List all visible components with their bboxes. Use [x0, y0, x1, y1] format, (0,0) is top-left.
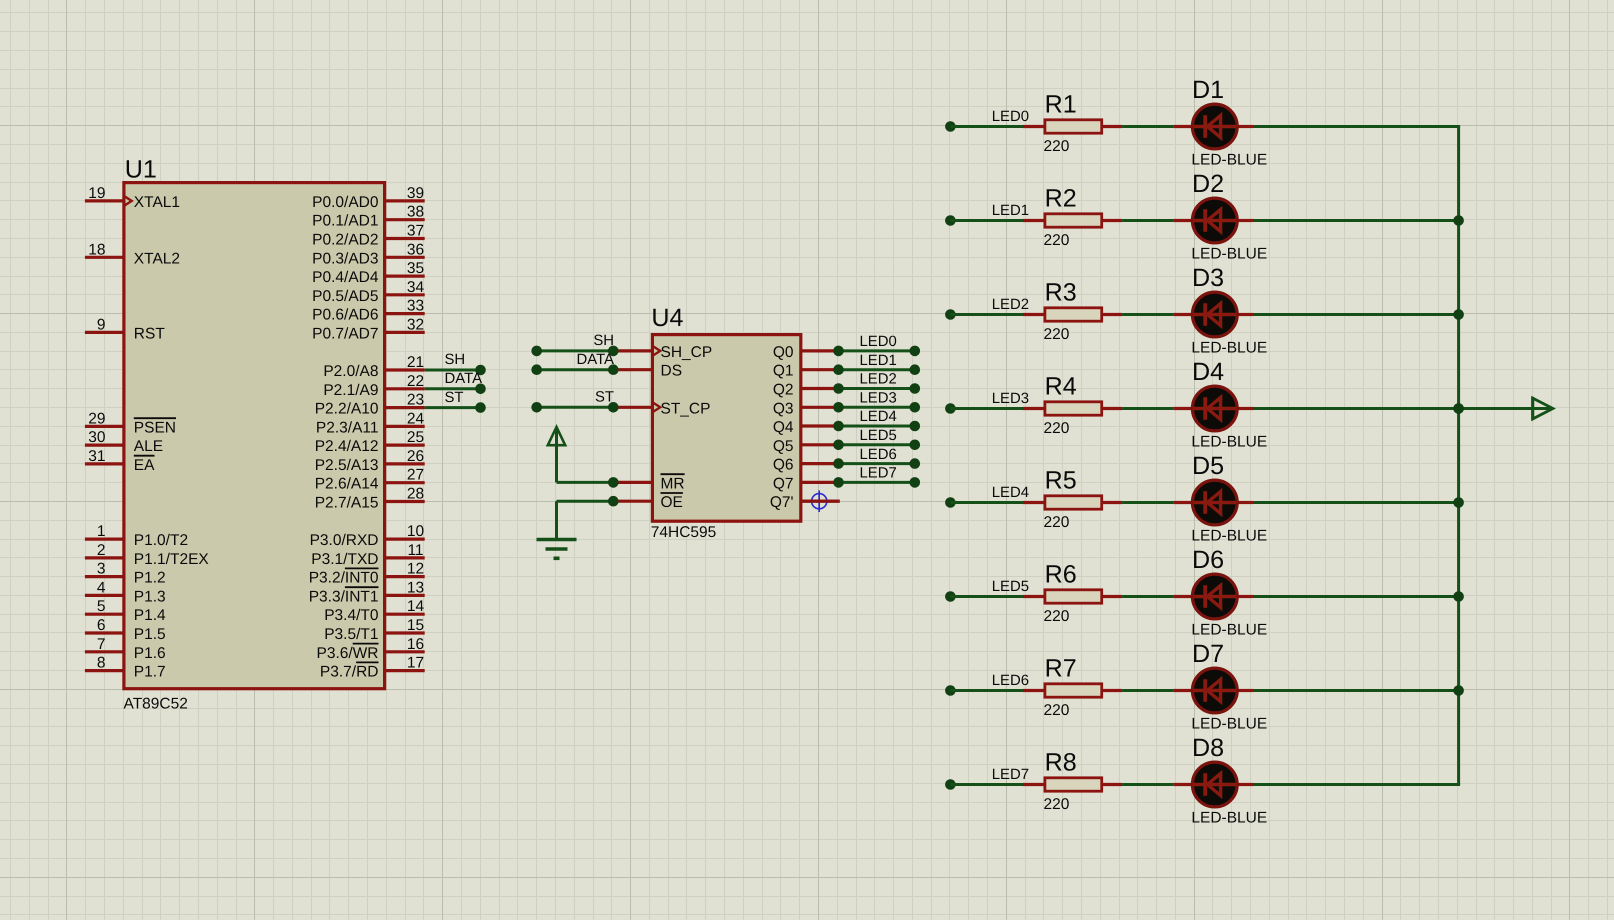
pin Q2 of U4 [773, 382, 839, 399]
svg-text:LED3: LED3 [992, 391, 1029, 407]
svg-text:P2.0/A8: P2.0/A8 [323, 363, 378, 380]
IC U1 AT89C52 body [124, 183, 385, 689]
svg-text:XTAL1: XTAL1 [134, 194, 180, 211]
pin 34 (P0.5-AD5) of U1 [312, 279, 425, 305]
svg-text:Q4: Q4 [773, 419, 794, 436]
svg-text:LED-BLUE: LED-BLUE [1191, 339, 1267, 356]
svg-text:P0.6/AD6: P0.6/AD6 [312, 307, 378, 324]
svg-text:LED4: LED4 [860, 409, 897, 425]
svg-text:10: 10 [407, 523, 425, 540]
svg-text:LED5: LED5 [992, 579, 1029, 595]
svg-text:15: 15 [407, 617, 424, 634]
svg-text:9: 9 [97, 316, 106, 333]
svg-text:P1.2: P1.2 [134, 570, 166, 587]
pin 4 (P1.3) of U1 [85, 579, 166, 605]
svg-text:ST: ST [445, 390, 464, 406]
svg-text:D5: D5 [1192, 452, 1224, 480]
LED D4 LED-BLUE [1173, 358, 1267, 451]
wire R2 to D2 [1122, 219, 1173, 222]
wire net LED2 from Q2 [833, 372, 920, 394]
svg-text:Q0: Q0 [773, 344, 794, 361]
svg-text:220: 220 [1044, 420, 1070, 437]
svg-text:Q6: Q6 [773, 457, 794, 474]
junction bus row 4 [1453, 403, 1464, 414]
node LED5 wire start [945, 591, 956, 602]
pin 26 (P2.5-A13) of U1 [315, 448, 425, 474]
pin 1 (P1.0-T2) of U1 [85, 523, 188, 549]
pin 14 (P3.4-T0) of U1 [324, 598, 424, 624]
wire LED6 to R7 [950, 673, 1029, 690]
wire R5 to D5 [1122, 501, 1173, 504]
svg-text:LED3: LED3 [860, 391, 897, 407]
pin 29 (PSEN) of U1 [85, 410, 176, 436]
pin MR of U4 [613, 474, 684, 492]
svg-text:LED-BLUE: LED-BLUE [1191, 245, 1267, 262]
svg-text:3: 3 [97, 561, 106, 578]
wire net SH into U4 SH_CP [531, 333, 618, 356]
wire net LED7 from Q7 [833, 466, 920, 488]
svg-text:LED0: LED0 [992, 109, 1029, 125]
pin 24 (P2.3-A11) of U1 [316, 410, 425, 436]
junction bus row 3 [1453, 309, 1464, 320]
svg-text:220: 220 [1044, 232, 1070, 249]
svg-text:37: 37 [407, 223, 424, 240]
pin ST_CP of U4 [613, 400, 710, 417]
pin 38 (P0.1-AD1) of U1 [312, 204, 425, 230]
svg-text:R1: R1 [1045, 90, 1077, 118]
svg-text:LED1: LED1 [992, 203, 1029, 219]
svg-text:16: 16 [407, 636, 424, 653]
node LED3 wire start [945, 403, 956, 414]
svg-text:D3: D3 [1192, 264, 1224, 292]
svg-text:Q7: Q7 [773, 475, 794, 492]
pin 12 (P3.2-INT0) of U1 [309, 561, 425, 587]
wire D7 to bus [1254, 689, 1459, 692]
svg-text:8: 8 [97, 655, 106, 672]
LED D3 LED-BLUE [1173, 264, 1267, 357]
wire net LED0 from Q0 [833, 334, 920, 356]
wire net ST into U4 ST_CP [531, 390, 618, 413]
LED D7 LED-BLUE [1173, 640, 1267, 733]
svg-text:ST_CP: ST_CP [661, 400, 711, 417]
svg-text:LED0: LED0 [860, 334, 897, 350]
node LED6 wire start [945, 685, 956, 696]
svg-text:P2.1/A9: P2.1/A9 [323, 382, 378, 399]
svg-text:31: 31 [88, 448, 105, 465]
svg-text:74HC595: 74HC595 [651, 524, 717, 541]
svg-text:P3.3/INT1: P3.3/INT1 [309, 588, 379, 605]
svg-text:LED4: LED4 [992, 485, 1029, 501]
svg-text:R6: R6 [1045, 560, 1077, 588]
svg-text:R2: R2 [1045, 184, 1077, 212]
svg-text:7: 7 [97, 636, 106, 653]
pin 32 (P0.7-AD7) of U1 [312, 316, 425, 342]
wire net LED4 from Q4 [833, 409, 920, 431]
svg-text:6: 6 [97, 617, 106, 634]
svg-text:ST: ST [595, 390, 614, 406]
pin 6 (P1.5) of U1 [85, 617, 166, 643]
node LED1 wire start [945, 215, 956, 226]
svg-text:R8: R8 [1045, 748, 1077, 776]
svg-text:P1.4: P1.4 [134, 607, 166, 624]
svg-text:P2.2/A10: P2.2/A10 [315, 401, 379, 418]
LED D8 LED-BLUE [1173, 734, 1267, 827]
wire net LED3 from Q3 [833, 391, 920, 413]
svg-text:17: 17 [407, 655, 424, 672]
svg-text:PSEN: PSEN [134, 419, 176, 436]
svg-text:P0.5/AD5: P0.5/AD5 [312, 288, 378, 305]
junction bus row 4 terminal [1453, 403, 1464, 414]
pin 39 (P0.0-AD0) of U1 [312, 185, 425, 211]
wire D8 to bus [1254, 783, 1461, 786]
wire D4 to output terminal [1254, 407, 1533, 410]
svg-text:P3.1/TXD: P3.1/TXD [311, 551, 378, 568]
resistor R1 220 [1023, 90, 1122, 155]
svg-text:21: 21 [407, 354, 424, 371]
svg-text:26: 26 [407, 448, 424, 465]
pin 9 (RST) of U1 [85, 316, 165, 342]
svg-text:P2.5/A13: P2.5/A13 [315, 457, 379, 474]
svg-text:DS: DS [661, 363, 683, 380]
pin 2 (P1.1-T2EX) of U1 [85, 542, 210, 568]
wire net SH from U1 P2.0 [425, 352, 486, 375]
resistor R7 220 [1023, 654, 1122, 719]
wire LED2 to R3 [950, 297, 1029, 314]
svg-text:32: 32 [407, 316, 424, 333]
svg-text:24: 24 [407, 410, 425, 427]
pin SH_CP of U4 [613, 344, 712, 361]
svg-text:R5: R5 [1045, 466, 1077, 494]
svg-text:39: 39 [407, 185, 424, 202]
svg-text:35: 35 [407, 260, 424, 277]
svg-text:SH: SH [593, 333, 614, 349]
wire R8 to D8 [1122, 783, 1173, 786]
resistor R8 220 [1023, 748, 1122, 813]
svg-text:LED-BLUE: LED-BLUE [1191, 809, 1267, 826]
pin 21 (P2.0-A8) of U1 [323, 354, 424, 380]
pin 33 (P0.6-AD6) of U1 [312, 298, 425, 324]
svg-text:LED6: LED6 [860, 447, 897, 463]
wire net LED6 from Q6 [833, 447, 920, 469]
pin Q5 of U4 [773, 438, 839, 455]
svg-text:ALE: ALE [134, 438, 163, 455]
svg-text:13: 13 [407, 579, 424, 596]
node LED4 wire start [945, 497, 956, 508]
svg-text:AT89C52: AT89C52 [124, 695, 188, 712]
svg-text:1: 1 [97, 523, 106, 540]
svg-text:LED7: LED7 [860, 466, 897, 482]
pin 11 (P3.1-TXD) of U1 [311, 542, 424, 568]
svg-text:P1.1/T2EX: P1.1/T2EX [134, 551, 210, 568]
LED D5 LED-BLUE [1173, 452, 1267, 545]
pin 10 (P3.0-RXD) of U1 [310, 523, 425, 549]
svg-text:22: 22 [407, 373, 424, 390]
svg-text:P3.5/T1: P3.5/T1 [324, 626, 378, 643]
svg-text:220: 220 [1044, 608, 1070, 625]
svg-text:P0.0/AD0: P0.0/AD0 [312, 194, 379, 211]
wire D6 to bus [1254, 595, 1459, 598]
svg-text:P3.0/RXD: P3.0/RXD [310, 532, 379, 549]
pin 37 (P0.2-AD2) of U1 [312, 223, 425, 249]
junction bus row 6 [1453, 591, 1464, 602]
svg-text:P2.7/A15: P2.7/A15 [315, 495, 379, 512]
svg-text:27: 27 [407, 467, 424, 484]
pin OE of U4 [613, 493, 683, 511]
svg-text:220: 220 [1044, 326, 1070, 343]
svg-text:P3.7/RD: P3.7/RD [320, 664, 379, 681]
svg-text:11: 11 [407, 542, 423, 559]
label AT89C52 value [124, 695, 188, 712]
pin 30 (ALE) of U1 [85, 429, 163, 455]
junction bus row 7 [1453, 685, 1464, 696]
svg-text:5: 5 [97, 598, 106, 615]
pin 17 (P3.7-RD) of U1 [320, 655, 425, 681]
svg-text:30: 30 [88, 429, 106, 446]
wire D1 to bus [1254, 125, 1461, 128]
pin Q7 of U4 [773, 475, 839, 492]
pin Q7' of U4 [770, 494, 840, 511]
svg-text:P0.2/AD2: P0.2/AD2 [312, 232, 378, 249]
svg-text:D6: D6 [1192, 546, 1224, 574]
wire LED5 to R6 [950, 579, 1029, 596]
wire net DATA from U1 P2.1 [425, 371, 486, 394]
pin 31 (EA) of U1 [85, 448, 155, 474]
svg-text:DATA: DATA [445, 371, 483, 387]
pin 16 (P3.6-WR) of U1 [316, 636, 424, 662]
svg-text:P3.6/WR: P3.6/WR [316, 645, 378, 662]
svg-text:Q5: Q5 [773, 438, 794, 455]
svg-text:SH_CP: SH_CP [661, 344, 713, 361]
svg-text:38: 38 [407, 204, 424, 221]
pin 27 (P2.6-A14) of U1 [315, 467, 425, 493]
svg-text:23: 23 [407, 392, 424, 409]
svg-text:RST: RST [134, 325, 166, 342]
svg-text:P0.4/AD4: P0.4/AD4 [312, 269, 379, 286]
wire D5 to bus [1254, 501, 1459, 504]
pin 18 (XTAL2) of U1 [85, 241, 180, 267]
pin Q0 of U4 [773, 344, 839, 361]
svg-text:D2: D2 [1192, 170, 1224, 198]
svg-text:P1.0/T2: P1.0/T2 [134, 532, 188, 549]
wire LED0 to R1 [950, 109, 1029, 126]
svg-text:29: 29 [88, 410, 105, 427]
svg-text:P0.1/AD1: P0.1/AD1 [312, 213, 378, 230]
pin 23 (P2.2-A10) of U1 [315, 392, 425, 418]
pin 15 (P3.5-T1) of U1 [324, 617, 424, 643]
svg-text:LED-BLUE: LED-BLUE [1191, 527, 1267, 544]
svg-text:R3: R3 [1045, 278, 1077, 306]
pin Q3 of U4 [773, 400, 839, 417]
resistor R4 220 [1023, 372, 1122, 437]
resistor R6 220 [1023, 560, 1122, 625]
pin DS of U4 [613, 363, 682, 380]
pin 7 (P1.6) of U1 [85, 636, 166, 662]
svg-text:Q7': Q7' [770, 494, 794, 511]
svg-text:DATA: DATA [576, 352, 614, 368]
svg-text:MR: MR [661, 475, 685, 492]
resistor R3 220 [1023, 278, 1122, 343]
svg-text:SH: SH [445, 352, 466, 368]
pin Q1 of U4 [773, 363, 839, 380]
svg-text:P2.3/A11: P2.3/A11 [316, 419, 379, 436]
output arrow terminal [1533, 397, 1553, 420]
svg-text:OE: OE [661, 494, 683, 511]
svg-text:P0.7/AD7: P0.7/AD7 [312, 325, 378, 342]
svg-text:P1.3: P1.3 [134, 588, 166, 605]
svg-text:12: 12 [407, 561, 424, 578]
svg-text:XTAL2: XTAL2 [134, 250, 180, 267]
svg-text:Q1: Q1 [773, 363, 794, 380]
svg-text:34: 34 [407, 279, 425, 296]
wire D3 to bus [1254, 313, 1459, 316]
label U1 reference [125, 156, 157, 184]
svg-text:LED-BLUE: LED-BLUE [1191, 433, 1267, 450]
svg-text:220: 220 [1044, 138, 1070, 155]
svg-text:220: 220 [1044, 702, 1070, 719]
svg-text:P2.4/A12: P2.4/A12 [315, 438, 379, 455]
svg-text:2: 2 [97, 542, 106, 559]
node LED7 wire start [945, 779, 956, 790]
wire vertical bus [1457, 127, 1460, 785]
label U4 reference [651, 304, 683, 332]
svg-text:P3.4/T0: P3.4/T0 [324, 607, 379, 624]
pin Q6 of U4 [773, 457, 839, 474]
wire R7 to D7 [1122, 689, 1173, 692]
svg-text:33: 33 [407, 298, 424, 315]
IC U4 74HC595 body [652, 335, 800, 522]
svg-text:LED2: LED2 [992, 297, 1029, 313]
pin Q4 of U4 [773, 419, 839, 436]
svg-text:220: 220 [1044, 796, 1070, 813]
pin 3 (P1.2) of U1 [85, 561, 166, 587]
pin 13 (P3.3-INT1) of U1 [309, 579, 425, 605]
svg-text:R4: R4 [1045, 372, 1077, 400]
label 74HC595 value [651, 524, 717, 541]
LED D1 LED-BLUE [1173, 76, 1267, 169]
wire R1 to D1 [1122, 125, 1173, 128]
wire LED3 to R4 [950, 391, 1029, 408]
resistor R5 220 [1023, 466, 1122, 531]
pin 36 (P0.3-AD3) of U1 [312, 241, 425, 267]
wire R6 to D6 [1122, 595, 1173, 598]
svg-text:19: 19 [88, 185, 105, 202]
node LED0 wire start [945, 121, 956, 132]
svg-text:P1.5: P1.5 [134, 626, 166, 643]
wire R4 to D4 [1122, 407, 1173, 410]
pin 8 (P1.7) of U1 [85, 655, 166, 681]
power terminal VCC to MR of U4 [548, 427, 619, 488]
ground terminal to OE of U4 [537, 496, 619, 558]
wire LED4 to R5 [950, 485, 1029, 502]
resistor R2 220 [1023, 184, 1122, 249]
svg-text:LED7: LED7 [992, 767, 1029, 783]
wire LED1 to R2 [950, 203, 1029, 220]
svg-text:P3.2/INT0: P3.2/INT0 [309, 570, 379, 587]
wire net LED5 from Q5 [833, 428, 920, 450]
svg-text:EA: EA [134, 457, 155, 474]
pin 19 (XTAL1) of U1 [85, 185, 180, 211]
svg-text:36: 36 [407, 241, 424, 258]
svg-text:D7: D7 [1192, 640, 1224, 668]
svg-text:LED1: LED1 [860, 353, 897, 369]
svg-text:18: 18 [88, 241, 105, 258]
LED D6 LED-BLUE [1173, 546, 1267, 639]
pin 25 (P2.4-A12) of U1 [315, 429, 425, 455]
pin 28 (P2.7-A15) of U1 [315, 486, 425, 512]
LED D2 LED-BLUE [1173, 170, 1267, 263]
svg-text:LED5: LED5 [860, 428, 897, 444]
node LED2 wire start [945, 309, 956, 320]
wire LED7 to R8 [950, 767, 1029, 784]
svg-text:LED-BLUE: LED-BLUE [1191, 715, 1267, 732]
svg-text:Q2: Q2 [773, 382, 794, 399]
svg-text:LED2: LED2 [860, 372, 897, 388]
svg-text:D4: D4 [1192, 358, 1224, 386]
svg-text:14: 14 [407, 598, 425, 615]
svg-text:P1.7: P1.7 [134, 664, 166, 681]
svg-text:U1: U1 [125, 156, 157, 184]
svg-text:P2.6/A14: P2.6/A14 [315, 476, 379, 493]
junction bus row 2 [1453, 215, 1464, 226]
svg-text:LED-BLUE: LED-BLUE [1191, 621, 1267, 638]
svg-text:LED6: LED6 [992, 673, 1029, 689]
svg-text:D1: D1 [1192, 76, 1224, 104]
pin 22 (P2.1-A9) of U1 [323, 373, 424, 399]
svg-text:R7: R7 [1045, 654, 1077, 682]
svg-text:D8: D8 [1192, 734, 1224, 762]
wire net DATA into U4 DS [531, 352, 618, 375]
wire net ST from U1 P2.2 [425, 390, 486, 413]
wire net LED1 from Q1 [833, 353, 920, 375]
pin 35 (P0.4-AD4) of U1 [312, 260, 425, 286]
svg-text:U4: U4 [651, 304, 683, 332]
no-connect marker at Q7' [800, 490, 839, 512]
wire R3 to D3 [1122, 313, 1173, 316]
svg-text:25: 25 [407, 429, 424, 446]
junction bus row 5 [1453, 497, 1464, 508]
svg-text:220: 220 [1044, 514, 1070, 531]
svg-text:Q3: Q3 [773, 400, 794, 417]
pin 5 (P1.4) of U1 [85, 598, 166, 624]
wire D2 to bus [1254, 219, 1459, 222]
svg-text:4: 4 [97, 579, 106, 596]
svg-text:P0.3/AD3: P0.3/AD3 [312, 250, 378, 267]
svg-text:P1.6: P1.6 [134, 645, 166, 662]
svg-text:28: 28 [407, 486, 424, 503]
svg-text:LED-BLUE: LED-BLUE [1191, 151, 1267, 168]
